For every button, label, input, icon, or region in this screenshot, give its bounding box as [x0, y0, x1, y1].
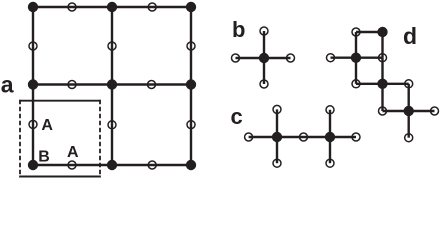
node b center filled — [259, 53, 269, 63]
node A open middle column lower — [108, 121, 116, 129]
wire d square2 right vertical — [381, 58, 383, 84]
node d open square1 top-left — [352, 28, 360, 36]
node d open square2 bottom-left — [352, 80, 360, 88]
node A open bottom edge 1 — [68, 161, 76, 169]
node A open bottom edge 2 — [148, 161, 156, 169]
node c open middle — [300, 133, 308, 141]
unit cell box bottom edge solid — [19, 176, 101, 178]
node d open row3 right arm — [431, 107, 439, 115]
node A open top edge 1 — [68, 3, 76, 11]
node c open left-top — [273, 105, 281, 113]
node B filled top-middle — [107, 2, 117, 12]
node c open right-top — [326, 106, 334, 114]
node d open row1 left arm — [327, 54, 335, 62]
node B filled bottom-left — [28, 160, 38, 170]
wire c right cross vertical — [329, 110, 331, 163]
node d open row2 right — [405, 80, 413, 88]
wire b cross vertical — [263, 31, 265, 84]
wire d row3 horizontal — [383, 110, 435, 112]
svg-text:A: A — [41, 117, 53, 134]
node A open top edge 2 — [148, 3, 156, 11]
wire grid-a horizontal row bottom — [33, 164, 191, 166]
wire c horizontal backbone — [249, 136, 356, 138]
node A open mid row edge 1 — [68, 81, 76, 89]
node A open left column upper — [29, 42, 37, 50]
svg-text:A: A — [67, 144, 79, 161]
wire d square3 right vertical — [408, 84, 410, 111]
node B filled mid-middle — [107, 79, 117, 89]
wire grid-a horizontal row top — [33, 6, 191, 8]
wire grid-a vertical column middle — [111, 7, 113, 165]
wire d square1 right vertical — [381, 32, 383, 58]
node A open middle column upper — [108, 42, 116, 50]
svg-text:c: c — [231, 104, 243, 129]
wire d bottom vertical — [408, 111, 410, 138]
node B filled top-left — [28, 2, 38, 12]
node d open square3 bottom-left — [379, 107, 387, 115]
wire d row1 horizontal — [331, 57, 383, 59]
node b open left — [232, 54, 240, 62]
unit cell box left edge dashed — [19, 100, 21, 178]
svg-text:b: b — [232, 17, 245, 42]
node c open right-bottom — [326, 159, 334, 167]
node B filled mid-right — [186, 79, 196, 89]
wire d row2 horizontal — [356, 83, 409, 85]
node B filled top-right — [186, 2, 196, 12]
unit cell box top edge solid — [19, 100, 101, 102]
node b open right — [287, 54, 295, 62]
node d filled square2 bottom-right — [377, 79, 387, 89]
node B filled bottom-middle — [107, 160, 117, 170]
node c open far right — [352, 133, 360, 141]
svg-text:B: B — [38, 148, 50, 165]
node b open bottom — [260, 80, 268, 88]
node B filled bottom-right — [186, 160, 196, 170]
unit cell box right edge dashed — [99, 100, 101, 178]
node B filled mid-left — [28, 79, 38, 89]
svg-text:d: d — [403, 23, 417, 49]
svg-text:a: a — [1, 72, 14, 98]
wire b cross horizontal — [236, 57, 291, 59]
node c filled left — [272, 132, 282, 142]
node A open right column upper — [187, 42, 195, 50]
node c open left-bottom — [273, 159, 281, 167]
wire grid-a horizontal row middle — [33, 83, 191, 85]
wire d square2 left vertical — [355, 58, 357, 84]
node c open far left — [245, 133, 253, 141]
node d filled square3 bottom-right — [404, 106, 414, 116]
node A open mid row edge 2 — [148, 81, 156, 89]
wire d square3 left vertical — [381, 84, 383, 111]
wire grid-a vertical column right — [190, 7, 192, 165]
wire c left cross vertical — [276, 109, 278, 163]
node b open top — [260, 27, 268, 35]
node d filled square1 top-right — [377, 27, 387, 37]
wire d square1 top — [356, 31, 383, 33]
node d open square1 bottom-right — [379, 54, 387, 62]
node A open right column lower — [187, 121, 195, 129]
node d filled square1 bottom-left — [351, 53, 361, 63]
wire d square1 left vertical — [355, 32, 357, 58]
wire grid-a vertical column left — [32, 7, 34, 165]
node A open left column lower — [29, 120, 37, 128]
node d open bottom arm — [405, 134, 413, 142]
node c filled right — [325, 132, 335, 142]
